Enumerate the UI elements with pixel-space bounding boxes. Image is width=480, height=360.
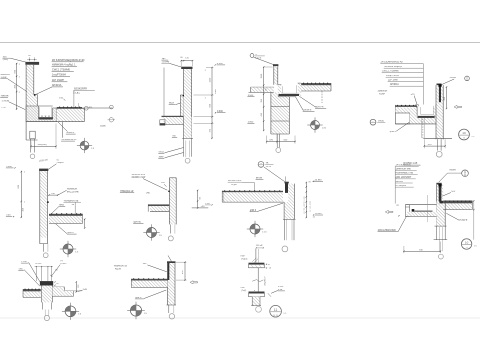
svg-text:3SMW1R: 3SMW1R xyxy=(378,90,388,92)
svg-text:150 sR: 150 sR xyxy=(256,245,263,247)
svg-text:90 1s0: 90 1s0 xyxy=(35,263,42,265)
svg-text:AP3R1A: AP3R1A xyxy=(390,83,399,86)
svg-text:1mqPT3K84: 1mqPT3K84 xyxy=(52,74,67,77)
svg-text:10: 10 xyxy=(465,241,469,245)
svg-text:2: 2 xyxy=(205,70,206,72)
svg-text:CWC1 JT3WM6: CWC1 JT3WM6 xyxy=(52,69,71,72)
svg-text:AP3R1A: AP3R1A xyxy=(52,84,62,87)
svg-text:2400: 2400 xyxy=(215,88,217,94)
svg-text:5sV: 5sV xyxy=(451,191,455,193)
svg-text:sHMW3R: sHMW3R xyxy=(1,74,11,76)
svg-text:25: 25 xyxy=(260,166,262,168)
svg-text:1mqPT3K84: 1mqPT3K84 xyxy=(386,75,399,77)
svg-text:5WSR: 5WSR xyxy=(450,77,457,79)
svg-text:11P 1NW: 11P 1NW xyxy=(388,80,398,82)
svg-text:5s: 5s xyxy=(57,159,59,161)
svg-text:(7q2): (7q2) xyxy=(241,290,246,292)
svg-text:500(450): 500(450) xyxy=(38,144,47,146)
svg-text:1:74OB: 1:74OB xyxy=(2,101,10,103)
svg-text:(7q10): (7q10) xyxy=(241,258,247,260)
svg-text:2: 2 xyxy=(19,92,20,94)
svg-text:HMWKM 4sqRq1: HMWKM 4sqRq1 xyxy=(384,66,402,68)
svg-text:sWqHMsV: sWqHMsV xyxy=(264,276,266,286)
svg-text:C 4C: C 4C xyxy=(1,107,6,109)
svg-text:(2): (2) xyxy=(60,260,63,262)
svg-text:50 100 2400: 50 100 2400 xyxy=(310,200,312,212)
svg-text:13: 13 xyxy=(463,138,465,140)
svg-text:sRC13 sHs: sRC13 sHs xyxy=(67,191,79,193)
svg-text:RqsW: RqsW xyxy=(115,269,122,271)
svg-text:q3R 6: q3R 6 xyxy=(390,131,397,133)
svg-text:25: 25 xyxy=(372,124,374,126)
svg-text:2-Aq: 2-Aq xyxy=(75,92,80,95)
svg-text:14.25: 14.25 xyxy=(273,315,279,317)
svg-text:2R 5JDMHR3L: 2R 5JDMHR3L xyxy=(396,164,412,166)
svg-text:sRC1B: sRC1B xyxy=(396,181,404,183)
svg-text:11: 11 xyxy=(274,308,278,312)
svg-text:2: 2 xyxy=(205,97,206,99)
svg-text:150 60 120 60 1500: 150 60 120 60 1500 xyxy=(304,195,306,214)
svg-text:sWCRC sVW: sWCRC sVW xyxy=(132,177,147,179)
svg-text:2R 5JDMHSNR3L 4D: 2R 5JDMHSNR3L 4D xyxy=(381,62,403,64)
svg-text:(350): (350) xyxy=(3,59,8,61)
svg-text:s.200: s.200 xyxy=(278,286,284,288)
svg-text:25: 25 xyxy=(464,175,466,177)
svg-text:5WSR: 5WSR xyxy=(449,170,456,172)
svg-text:R3q5-B: R3q5-B xyxy=(460,220,468,222)
svg-text:R,qR: R,qR xyxy=(231,184,237,186)
svg-text:5sV: 5sV xyxy=(143,263,147,265)
svg-text:R1NP: R1NP xyxy=(379,94,386,96)
svg-text:1:R(5): 1:R(5) xyxy=(378,121,384,123)
svg-text:1sHMV3 sHs: 1sHMV3 sHs xyxy=(132,174,146,176)
svg-text:CWC1 JT3WM6: CWC1 JT3WM6 xyxy=(382,71,399,73)
svg-text:7sW: 7sW xyxy=(240,287,244,289)
svg-text:1sHMV3 sHs: 1sHMV3 sHs xyxy=(228,180,242,182)
svg-text:HMWKMA 4 sqRq1 1: HMWKMA 4 sqRq1 1 xyxy=(52,64,76,67)
svg-text:13: 13 xyxy=(466,247,468,249)
svg-text:qW1 sRCS3RT: qW1 sRCS3RT xyxy=(396,177,412,179)
svg-text:2: 2 xyxy=(19,64,20,66)
svg-text:2: 2 xyxy=(19,77,20,79)
svg-text:2R 5JDMHSNEQWMXLR 4D: 2R 5JDMHSNEQWMXLR 4D xyxy=(52,59,85,62)
svg-text:C73Rqs-R: C73Rqs-R xyxy=(396,185,407,187)
svg-text:5sW: 5sW xyxy=(83,289,87,291)
svg-text:2: 2 xyxy=(24,201,25,203)
svg-text:12(M): 12(M) xyxy=(100,125,106,127)
svg-text:7sW: 7sW xyxy=(240,256,244,258)
svg-text:2WqD0: 2WqD0 xyxy=(57,162,65,164)
svg-text:HSMW1R sB: HSMW1R sB xyxy=(114,266,127,268)
svg-text:1sHMV3R sHs: 1sHMV3R sHs xyxy=(396,169,412,171)
svg-text:10: 10 xyxy=(462,131,466,135)
svg-text:14.25: 14.25 xyxy=(266,166,272,168)
svg-text:1120: 1120 xyxy=(209,77,211,82)
svg-text:BS3KSRFR: BS3KSRFR xyxy=(74,87,87,90)
svg-text:HSMW3R: HSMW3R xyxy=(67,189,78,191)
svg-text:o75sV: o75sV xyxy=(60,263,67,265)
svg-text:2: 2 xyxy=(24,171,25,173)
svg-text:11P 1NWP: 11P 1NWP xyxy=(52,79,64,82)
svg-text:HSMWRBs3 7sB: HSMWRBs3 7sB xyxy=(396,173,414,175)
